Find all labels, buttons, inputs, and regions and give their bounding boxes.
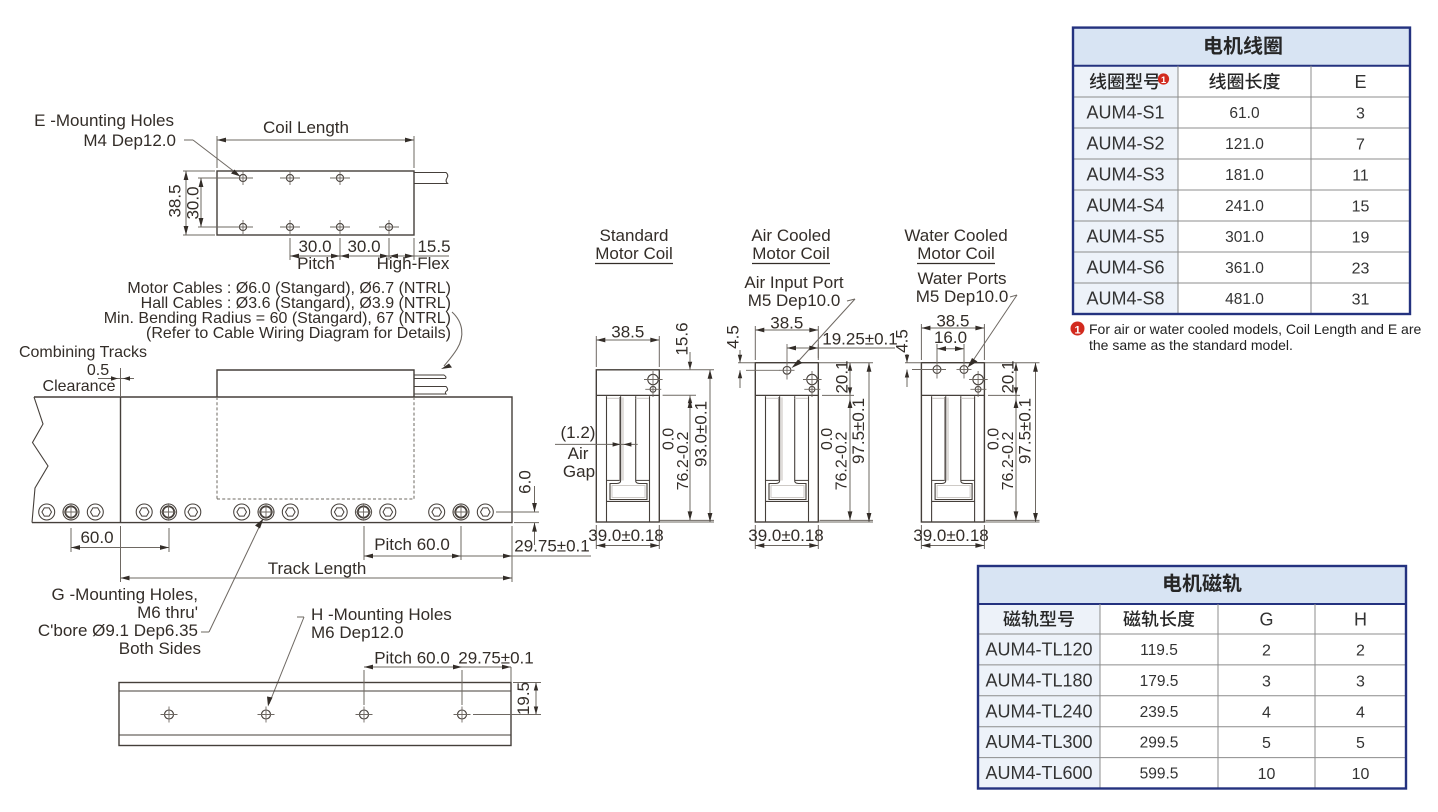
dimension 19.25 air [817,344,819,358]
svg-text:6.0: 6.0 [515,470,534,494]
svg-text:Motor Coil: Motor Coil [595,244,672,263]
dimension 60.0 hole pitch [70,528,72,552]
dimension 38.5 air [754,326,756,360]
dimension 30.0 30.0 15.5 pitch horizontal [289,238,291,260]
svg-text:Motor Coil: Motor Coil [917,244,994,263]
svg-text:E -Mounting Holes: E -Mounting Holes [34,111,174,130]
cables side view [414,375,446,379]
svg-text:Standard: Standard [600,226,669,245]
svg-text:For air or water cooled models: For air or water cooled models, Coil Len… [1089,321,1421,337]
svg-text:10: 10 [1258,766,1276,783]
leader water ports [1010,295,1017,297]
track side view outline with break [32,397,512,523]
track mounting holes side view [39,504,55,520]
svg-text:301.0: 301.0 [1225,229,1264,246]
svg-text:C'bore Ø9.1 Dep6.35: C'bore Ø9.1 Dep6.35 [38,621,198,640]
track joint line [120,397,122,523]
svg-text:Air Input Port: Air Input Port [744,273,843,292]
svg-text:97.5±0.1: 97.5±0.1 [849,398,868,464]
dimension 97.5 air [818,521,873,523]
svg-text:39.0±0.18: 39.0±0.18 [588,526,664,545]
svg-text:AUM4-S6: AUM4-S6 [1086,258,1164,278]
svg-text:93.0±0.1: 93.0±0.1 [691,401,710,467]
svg-text:M5 Dep10.0: M5 Dep10.0 [916,287,1009,306]
svg-text:39.0±0.18: 39.0±0.18 [913,526,989,545]
water ports [933,366,941,374]
svg-text:AUM4-TL240: AUM4-TL240 [985,701,1092,721]
table note [1071,322,1085,336]
svg-text:AUM4-S3: AUM4-S3 [1086,165,1164,185]
svg-text:119.5: 119.5 [1140,642,1178,659]
rail H holes [165,710,174,719]
svg-text:31: 31 [1352,292,1370,309]
table motor coil title [1205,36,1222,54]
svg-text:121.0: 121.0 [1225,136,1264,153]
svg-text:30.0: 30.0 [347,237,380,256]
svg-text:15.6: 15.6 [672,322,691,355]
coil block hidden outline dashed [216,397,218,499]
section hall sensor circles [648,374,658,384]
svg-text:20.1: 20.1 [998,360,1017,393]
leader G-mounting [201,631,209,633]
section blade foot [610,481,647,500]
leader E-mounting [184,139,193,141]
section blade [778,397,780,481]
svg-text:181.0: 181.0 [1225,167,1264,184]
table magnet track grid [978,603,1406,605]
leader H-mounting [297,616,304,618]
section slot bottoms [932,479,946,481]
svg-text:23: 23 [1352,261,1370,278]
svg-text:1: 1 [1074,325,1080,337]
svg-text:3: 3 [1262,673,1271,690]
table magnet track headers [1003,610,1020,626]
svg-text:19.5: 19.5 [514,682,533,715]
dimension 76.2 air [820,519,874,521]
table motor coil grid [1073,65,1410,67]
section cap bottom line [755,394,818,396]
svg-text:High-Flex: High-Flex [377,254,450,273]
section inner walls [931,396,933,522]
coil top view cable stub [414,173,448,184]
dimension 30.0 hole spacing vertical [198,177,236,179]
section blade [944,397,946,481]
dimension 29.75 rail [510,667,512,683]
track bottom rail outline [119,683,511,746]
svg-text:AUM4-S2: AUM4-S2 [1086,134,1164,154]
section base top line [607,500,650,502]
svg-text:16.0: 16.0 [934,328,967,347]
svg-text:10: 10 [1352,766,1370,783]
section hall sensor circles [973,374,983,384]
svg-text:Motor Coil: Motor Coil [752,244,829,263]
svg-text:599.5: 599.5 [1140,766,1179,783]
coil block on track side view [217,370,414,397]
svg-text:Combining Tracks: Combining Tracks [19,344,147,361]
svg-text:E: E [1354,72,1366,92]
svg-text:AUM4-TL300: AUM4-TL300 [985,732,1092,752]
svg-text:Pitch 60.0: Pitch 60.0 [374,535,450,554]
svg-text:61.0: 61.0 [1229,105,1260,122]
section outer profile [596,370,659,522]
svg-text:1: 1 [1161,75,1167,86]
svg-text:AUM4-TL600: AUM4-TL600 [985,763,1092,783]
table magnet track title [1164,574,1181,592]
dimension Pitch 60.0 rail [363,670,365,705]
svg-text:AUM4-S4: AUM4-S4 [1086,196,1164,216]
svg-text:11: 11 [1352,168,1369,185]
svg-text:19.25±0.1: 19.25±0.1 [822,330,898,349]
svg-text:4: 4 [1262,704,1271,721]
svg-text:60.0: 60.0 [80,528,113,547]
dimension 16.0 water [936,344,938,364]
dimension 39.0 water [920,525,922,549]
svg-text:Air: Air [568,444,589,463]
coil top view mounting holes [239,174,246,181]
section slot bottoms [766,479,780,481]
dimension 19.5 [513,682,541,684]
svg-text:AUM4-TL180: AUM4-TL180 [985,670,1092,690]
dimension 29.75 track [511,526,513,582]
svg-text:H -Mounting Holes: H -Mounting Holes [311,605,452,624]
svg-text:Pitch 60.0: Pitch 60.0 [374,649,450,668]
section inner walls [606,396,608,522]
svg-text:the same as the standard model: the same as the standard model. [1089,337,1293,353]
svg-text:AUM4-S8: AUM4-S8 [1086,289,1164,309]
svg-text:4: 4 [1356,704,1365,721]
section air gap shading [781,398,783,481]
dimension 76.2 water [986,519,1040,521]
svg-text:29.75±0.1: 29.75±0.1 [514,537,590,556]
svg-text:Both Sides: Both Sides [119,639,201,658]
section outer profile [921,363,984,522]
svg-text:Air Cooled: Air Cooled [751,226,830,245]
svg-text:Gap: Gap [563,462,595,481]
dimension 38.5 water [920,324,922,360]
svg-text:5: 5 [1262,735,1271,752]
section blade foot [935,481,972,500]
dimension 38.5 coil width [183,170,215,172]
svg-text:97.5±0.1: 97.5±0.1 [1015,398,1034,464]
svg-text:3: 3 [1356,106,1365,123]
svg-text:19: 19 [1352,230,1370,247]
svg-text:G: G [1259,610,1273,630]
air input port [783,366,791,374]
section slot bottoms [607,479,621,481]
svg-text:7: 7 [1356,137,1365,154]
leader air input port [847,299,855,301]
dimension Track Length [120,526,122,582]
dimension 20.1 air [818,362,873,364]
svg-text:AUM4-S5: AUM4-S5 [1086,227,1164,247]
svg-text:38.5: 38.5 [770,314,803,333]
svg-text:29.75±0.1: 29.75±0.1 [458,649,534,668]
svg-text:Water Ports: Water Ports [917,269,1006,288]
svg-text:481.0: 481.0 [1225,291,1264,308]
table motor coil frame [1073,28,1410,314]
svg-text:239.5: 239.5 [1140,704,1179,721]
svg-text:179.5: 179.5 [1140,673,1179,690]
dimension 93.0 standard [659,521,714,523]
svg-text:4.5: 4.5 [723,325,742,349]
svg-text:38.5: 38.5 [165,184,184,217]
section base top line [932,500,975,502]
svg-text:2: 2 [1262,642,1271,659]
dimension Pitch 60.0 track [363,526,365,560]
dimension 6.0 [496,511,539,513]
svg-text:Track Length: Track Length [268,559,367,578]
svg-text:AUM4-S1: AUM4-S1 [1086,103,1164,123]
svg-text:M6 thru': M6 thru' [137,603,198,622]
svg-text:G -Mounting Holes,: G -Mounting Holes, [52,585,198,604]
section hall sensor circles [807,374,817,384]
table motor coil headers [1090,73,1107,90]
coil top view outline [217,171,414,235]
section blade foot [769,481,806,500]
section blade [619,397,621,481]
svg-text:M4 Dep12.0: M4 Dep12.0 [83,131,176,150]
section cap bottom line [921,394,984,396]
dimension 20.1 water [984,362,1039,364]
svg-text:299.5: 299.5 [1140,735,1179,752]
track break zigzag [32,397,48,523]
svg-text:76.2-0.2: 76.2-0.2 [675,432,692,491]
svg-text:38.5: 38.5 [611,323,644,342]
svg-text:3: 3 [1356,673,1365,690]
svg-text:30.0: 30.0 [183,186,202,219]
svg-text:M6 Dep12.0: M6 Dep12.0 [311,623,404,642]
svg-text:2: 2 [1356,642,1365,659]
section air gap shading [947,398,949,481]
section air gap shading [622,398,624,481]
svg-text:Pitch: Pitch [297,254,335,273]
svg-text:4.5: 4.5 [892,329,911,353]
dimension 76.2 standard [663,394,696,396]
svg-text:Coil Length: Coil Length [263,118,349,137]
section outer profile [755,363,818,522]
dimension 97.5 water [984,521,1039,523]
section inner walls [765,396,767,522]
leader from notes to cables [444,312,462,366]
dimension 39.0 air [754,525,756,549]
svg-text:Water Cooled: Water Cooled [904,226,1007,245]
svg-text:M5 Dep10.0: M5 Dep10.0 [748,291,841,310]
svg-text:0.5: 0.5 [87,362,109,379]
svg-text:241.0: 241.0 [1225,198,1264,215]
svg-text:361.0: 361.0 [1225,260,1264,277]
svg-text:39.0±0.18: 39.0±0.18 [748,526,824,545]
svg-text:15: 15 [1352,199,1370,216]
section base top line [766,500,809,502]
section cap bottom line [596,394,659,396]
svg-text:5: 5 [1356,735,1365,752]
svg-text:Clearance: Clearance [43,378,116,395]
table magnet track frame [978,566,1406,789]
svg-text:AUM4-TL120: AUM4-TL120 [985,639,1092,659]
svg-text:20.1: 20.1 [832,360,851,393]
dimension Coil Length [216,136,218,168]
svg-text:(1.2): (1.2) [561,423,596,442]
svg-text:(Refer to Cable Wiring Diagram: (Refer to Cable Wiring Diagram for Detai… [146,325,451,342]
dimension 39.0 standard [595,525,597,549]
svg-text:H: H [1354,610,1367,630]
dimension 38.5 standard [595,336,597,367]
